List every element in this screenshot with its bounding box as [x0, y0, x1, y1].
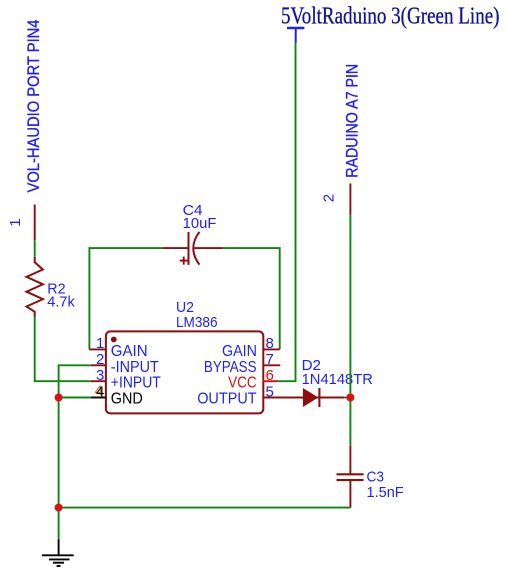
svg-text:GAIN: GAIN: [111, 343, 148, 360]
capacitor C3: [337, 446, 364, 508]
ground: [42, 539, 74, 566]
pin 6 stub (vcc): [263, 380, 278, 382]
svg-text:6: 6: [266, 367, 274, 384]
wire -INPUT down: [59, 365, 91, 507]
wire output pin 5: [263, 397, 345, 399]
wire bottom rail: [59, 507, 351, 509]
svg-text:1.5nF: 1.5nF: [367, 484, 404, 501]
pin 3 stub: [91, 380, 107, 382]
diode D2: [303, 388, 320, 407]
svg-text:1: 1: [96, 335, 104, 352]
pin 1 stub: [89, 348, 106, 350]
svg-text:RADUINO A7 PIN: RADUINO A7 PIN: [343, 64, 361, 178]
svg-text:+INPUT: +INPUT: [111, 375, 161, 392]
wire: [34, 240, 36, 256]
wire GND pin: [59, 397, 91, 399]
svg-text:-INPUT: -INPUT: [111, 359, 159, 376]
svg-text:VOL-HAUDIO PORT PIN4: VOL-HAUDIO PORT PIN4: [25, 19, 43, 192]
capacitor C4: [162, 232, 223, 265]
pin 8 stub: [263, 348, 280, 350]
wire to ground: [58, 508, 60, 540]
pin 2 stub: [91, 364, 107, 366]
svg-text:BYPASS: BYPASS: [204, 359, 257, 376]
svg-text:3: 3: [96, 367, 104, 384]
wire C4 left to pin1: [89, 248, 162, 349]
svg-text:4.7k: 4.7k: [47, 293, 75, 310]
wire A7 net: [349, 215, 351, 446]
wire C4 right to pin8: [223, 248, 280, 349]
pin number 4: [95, 383, 105, 401]
wire resistor to +INPUT: [35, 317, 91, 382]
svg-text:2: 2: [96, 351, 104, 368]
resistor R2: [27, 257, 43, 317]
svg-text:GAIN: GAIN: [222, 343, 257, 360]
pin wire port 1: [34, 205, 36, 241]
pin 4 stub (gnd): [91, 397, 107, 399]
svg-text:4: 4: [96, 383, 104, 400]
svg-text:OUTPUT: OUTPUT: [197, 391, 257, 408]
svg-text:LM386: LM386: [176, 314, 218, 331]
svg-text:8: 8: [266, 335, 274, 352]
svg-text:1N4148TR: 1N4148TR: [302, 371, 373, 388]
svg-text:10uF: 10uF: [183, 215, 217, 232]
svg-text:1: 1: [7, 218, 24, 226]
svg-text:2: 2: [320, 194, 337, 202]
wire: [344, 397, 350, 399]
junction at ground rail: [55, 504, 63, 512]
power pin marker: [287, 28, 304, 43]
svg-text:VCC: VCC: [228, 375, 257, 392]
pin wire port 2: [349, 184, 351, 215]
wire 5V vertical: [278, 43, 296, 382]
junction at GND pin: [55, 394, 63, 402]
op-amp U2 LM386 box: [106, 331, 263, 413]
svg-text:5VoltRaduino 3(Green Line): 5VoltRaduino 3(Green Line): [281, 3, 500, 29]
svg-text:7: 7: [266, 351, 274, 368]
pin1 marker dot: [111, 337, 117, 343]
svg-text:GND: GND: [111, 391, 143, 408]
pin 7 stub: [263, 364, 281, 366]
junction diode to A7: [346, 394, 354, 402]
